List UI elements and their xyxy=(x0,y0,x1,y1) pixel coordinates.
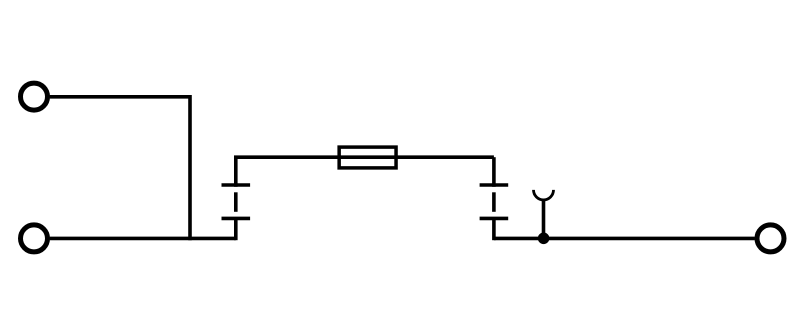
disconnect knife right: middle dash xyxy=(492,192,496,212)
disconnect knife left: lower bar xyxy=(222,217,251,221)
wire top bus through fuse xyxy=(234,155,494,159)
junction dot xyxy=(538,233,550,245)
disconnect knife left: top stub xyxy=(234,157,238,187)
disconnect knife right: lower bar xyxy=(480,217,509,221)
test tap socket arc xyxy=(534,190,554,200)
disconnect knife left: bottom stub xyxy=(234,218,238,240)
test tap stem xyxy=(542,200,546,240)
terminal circle top-left xyxy=(21,83,48,110)
disconnect knife right: bottom stub xyxy=(492,218,496,240)
fuse F1 body xyxy=(339,147,396,168)
wire bottom-left bus xyxy=(50,237,236,241)
disconnect knife left: upper bar xyxy=(222,183,251,187)
wire from top-left terminal right then down xyxy=(50,97,190,240)
disconnect knife right: top stub xyxy=(492,157,496,187)
terminal circle right xyxy=(757,225,784,252)
disconnect knife left: middle dash xyxy=(234,192,238,212)
wire bottom-right bus xyxy=(494,237,755,241)
disconnect knife right: upper bar xyxy=(480,183,509,187)
terminal circle bottom-left xyxy=(21,225,48,252)
